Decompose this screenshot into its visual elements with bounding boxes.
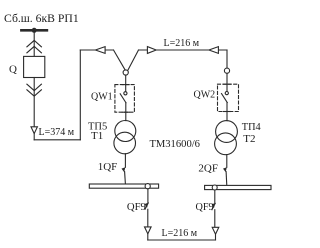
wire T2 to breaker 2QF (226, 155, 228, 168)
svg-text:1QF: 1QF (98, 161, 118, 173)
svg-text:2QF: 2QF (198, 163, 218, 175)
svg-text:Q: Q (9, 64, 17, 76)
busbar 6kV RP1 (21, 29, 47, 32)
svg-text:ТМ31600/6: ТМ31600/6 (150, 139, 200, 150)
wire circle to QW2 (226, 73, 228, 91)
cable termination arrow bottom-left (145, 227, 152, 234)
wire T1 to breaker 1QF (124, 154, 126, 168)
svg-text:QF9: QF9 (196, 202, 214, 213)
cable termination arrow (L=374) (31, 127, 37, 134)
transformer T2 (216, 121, 238, 143)
wire left bus to QF9 (147, 189, 149, 203)
svg-text:L=374 м: L=374 м (39, 127, 75, 138)
tap diagonal right (128, 50, 139, 70)
junction dot on busbar (32, 28, 37, 33)
cable L=216 top run (139, 49, 228, 51)
transformer T1 (115, 121, 136, 142)
breaker QF9 left mark (145, 203, 149, 208)
wire below arrow (33, 134, 35, 140)
QW2 blade (222, 94, 228, 103)
cable riser wire (79, 50, 81, 140)
tap diagonal left (114, 50, 126, 70)
connection circle on right bus (212, 185, 217, 190)
svg-text:QW2: QW2 (194, 89, 216, 100)
disconnector chevrons upper (Q) (27, 40, 42, 46)
wire node to QW1 (125, 75, 127, 92)
svg-text:ТП4: ТП4 (242, 122, 261, 133)
wire to bottom cable right (215, 234, 217, 240)
switchboard bus right (205, 185, 271, 189)
cable termination right-pointing (147, 47, 156, 54)
svg-text:QW1: QW1 (91, 91, 113, 102)
cable termination left-pointing (right end) (209, 47, 219, 54)
cable L=374 bottom run (34, 139, 80, 141)
wire busbar to disconnector Q (33, 31, 35, 56)
wire QW1 to transformer T1 (125, 103, 127, 121)
cable termination arrow bottom-right (212, 227, 219, 234)
svg-text:Сб.ш. 6кВ РП1: Сб.ш. 6кВ РП1 (4, 12, 79, 25)
fuse body Q (24, 56, 45, 77)
svg-text:L=216 м: L=216 м (164, 38, 200, 49)
disconnector chevrons lower (Q) (27, 84, 42, 90)
connection circle on left bus (145, 184, 150, 189)
wire to bottom cable (147, 234, 149, 240)
breaker 1QF mark (122, 167, 126, 172)
switchboard bus left (89, 184, 158, 188)
svg-text:L=216 м: L=216 м (162, 228, 198, 239)
svg-text:QF9: QF9 (127, 201, 146, 213)
connection circle QW2 feeder (224, 68, 229, 73)
cable L=216 bottom run (148, 239, 216, 241)
QW2 contact circle (225, 92, 228, 95)
riser to QW2 (226, 50, 228, 68)
feeder line to tap node (80, 49, 113, 51)
wire QW2 to transformer T2 (226, 103, 228, 121)
QW1 contact circle (124, 92, 127, 95)
cable termination left-pointing (95, 47, 105, 54)
breaker QF9 right mark (212, 203, 216, 208)
wire Q to cable termination (33, 78, 35, 127)
svg-text:Т2: Т2 (243, 133, 255, 145)
QW2 drawout dashed box (218, 84, 239, 111)
tap node circle (123, 70, 128, 75)
svg-text:Т1: Т1 (91, 130, 103, 142)
wire right bus to QF9 (214, 190, 216, 203)
breaker 2QF mark (223, 167, 227, 172)
QW1 drawout dashed box (115, 85, 134, 113)
QW1 blade (120, 94, 126, 103)
